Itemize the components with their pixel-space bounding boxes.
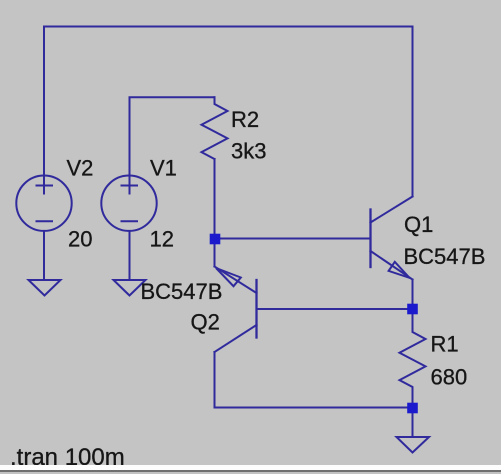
node A junction [210, 234, 221, 245]
wire node A to Q2 emitter [214, 239, 216, 267]
wire Q2 collector down [214, 352, 216, 408]
node C junction [407, 403, 418, 414]
wire Q1 emitter to node B [412, 280, 414, 310]
svg-text:680: 680 [431, 365, 468, 390]
wire bottom rail [215, 407, 413, 409]
transistor Q1 [371, 197, 413, 280]
label V1 [150, 156, 177, 181]
wire Q1 collector to top rail [412, 27, 414, 197]
label R2 [231, 107, 259, 132]
value BC547B of Q2 [141, 279, 223, 304]
label Q1 [404, 212, 433, 237]
svg-text:R1: R1 [431, 332, 459, 357]
svg-text:R2: R2 [231, 107, 259, 132]
label V2 [67, 156, 94, 181]
value BC547B of Q1 [404, 244, 486, 269]
value 20 [68, 227, 92, 252]
node B junction [407, 304, 418, 315]
wire V1 bottom lead [129, 231, 131, 280]
resistor R1 [400, 309, 426, 408]
svg-text:V1: V1 [150, 156, 177, 181]
wire R2 to node A [214, 159, 216, 239]
ground under R1 [397, 437, 430, 453]
ground under V1 [114, 280, 146, 296]
svg-text:3k3: 3k3 [231, 139, 266, 164]
wire V2 top lead [43, 27, 45, 194]
spice directive .tran 100m [10, 444, 125, 471]
wire top rail [44, 26, 413, 28]
status bar top highlight [0, 465, 501, 470]
label Q2 [191, 310, 220, 335]
value 680 [431, 365, 468, 390]
svg-text:12: 12 [150, 227, 174, 252]
svg-text:Q1: Q1 [404, 212, 433, 237]
label R1 [431, 332, 459, 357]
wire V1 top lead [130, 97, 215, 193]
svg-text:V2: V2 [67, 156, 94, 181]
value 3k3 [231, 139, 266, 164]
wire Q2 base to node B [257, 308, 413, 310]
voltage source V2 [16, 176, 71, 231]
svg-text:BC547B: BC547B [141, 279, 223, 304]
svg-text:20: 20 [68, 227, 92, 252]
svg-text:Q2: Q2 [191, 310, 220, 335]
value 12 [150, 227, 174, 252]
ground under V2 [29, 280, 61, 296]
resistor R2 [202, 97, 228, 159]
status bar dark edge [0, 470, 501, 472]
wire V2 bottom lead [43, 231, 45, 280]
wire node C to ground [412, 408, 414, 437]
transistor Q2 [215, 267, 257, 353]
wire node A to Q1 base [215, 238, 371, 240]
status bar face [0, 472, 501, 474]
voltage source V1 [101, 176, 156, 231]
svg-text:BC547B: BC547B [404, 244, 486, 269]
